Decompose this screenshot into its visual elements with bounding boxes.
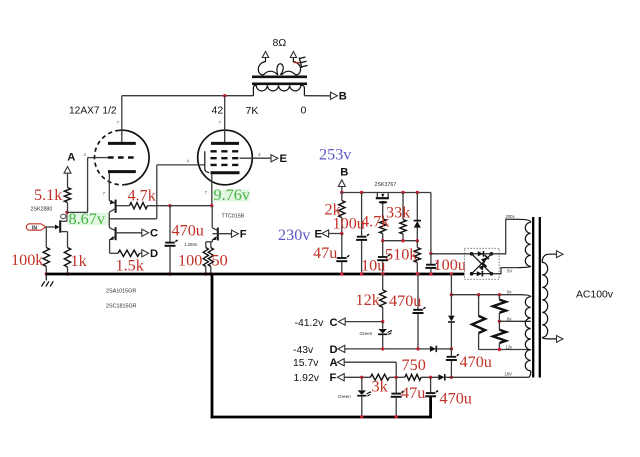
capacitor 470u D-F bbox=[446, 349, 459, 377]
wire A net bbox=[344, 362, 396, 377]
capacitor 470u bypass bbox=[165, 206, 178, 274]
label AC100v bbox=[576, 290, 614, 301]
wire bridge to 200v tap bbox=[492, 219, 519, 254]
capacitor 470u output bbox=[425, 377, 438, 396]
wire U2 screen to E bbox=[240, 157, 272, 159]
svg-text:7K: 7K bbox=[246, 105, 259, 117]
svg-text:470u: 470u bbox=[440, 390, 472, 408]
svg-text:D: D bbox=[150, 248, 158, 260]
label 6v bbox=[507, 317, 512, 322]
junction bus-451 bbox=[450, 272, 453, 275]
transistor Q1 2SA1015 bbox=[109, 200, 115, 228]
tube U1 12AX7 envelope bbox=[94, 130, 149, 185]
probe circle at drain bbox=[61, 214, 66, 218]
label 470u output bbox=[440, 390, 472, 408]
ground bus left vertical bbox=[211, 274, 214, 418]
transistor Q3 TTC015B bbox=[212, 206, 218, 242]
resistor 750 bbox=[405, 374, 439, 380]
wire F net bbox=[344, 376, 370, 379]
svg-text:C: C bbox=[150, 228, 158, 240]
svg-text:0: 0 bbox=[301, 105, 307, 117]
svg-text:470u: 470u bbox=[172, 222, 204, 240]
label 5.1k bbox=[34, 186, 63, 204]
label 470u bias bbox=[389, 292, 421, 310]
ground bus bottom bbox=[211, 416, 431, 419]
led LED2 green bbox=[357, 377, 371, 418]
svg-text:AC100v: AC100v bbox=[576, 290, 614, 301]
tube U2 grid bracket bbox=[205, 151, 209, 172]
wire plate rail bbox=[122, 95, 254, 97]
wire 12v line bbox=[479, 348, 528, 351]
resistor 33k bbox=[400, 191, 406, 241]
svg-text:2SK2880: 2SK2880 bbox=[31, 207, 53, 213]
svg-text:510k: 510k bbox=[385, 246, 418, 264]
wire red net to cathode bbox=[170, 205, 212, 207]
heater left 12AX7 bbox=[472, 295, 485, 350]
svg-text:230v: 230v bbox=[278, 226, 311, 244]
wire 16V line bbox=[451, 376, 528, 378]
node B port right bbox=[331, 91, 347, 103]
junction 1k-bus bbox=[66, 272, 69, 275]
label 16V bbox=[505, 372, 513, 377]
tube U2 grids bbox=[211, 151, 240, 165]
svg-text:12v: 12v bbox=[506, 345, 514, 350]
node F port left bbox=[330, 372, 345, 384]
svg-text:100u: 100u bbox=[434, 256, 466, 274]
svg-text:IN: IN bbox=[32, 226, 37, 232]
svg-text:F: F bbox=[330, 372, 337, 384]
svg-text:2SC1815GR: 2SC1815GR bbox=[106, 304, 137, 310]
output transformer core bbox=[252, 77, 307, 84]
capacitor 470u bias bbox=[413, 272, 426, 349]
label 12k bbox=[356, 291, 381, 309]
diode D line bbox=[430, 346, 452, 352]
capacitor 100u first bbox=[356, 191, 369, 274]
svg-text:33k: 33k bbox=[386, 204, 411, 222]
junction 47u-bus bbox=[340, 272, 343, 275]
resistor 4.7k bbox=[130, 203, 171, 209]
svg-text:5.1k: 5.1k bbox=[34, 186, 63, 204]
junction F-451 bbox=[450, 376, 453, 379]
label 230v bbox=[278, 226, 311, 244]
tube U2 42 envelope bbox=[198, 130, 253, 185]
label 47u supply bbox=[313, 244, 337, 262]
svg-text:8Ω: 8Ω bbox=[273, 37, 287, 49]
svg-text:Green: Green bbox=[338, 394, 351, 399]
svg-text:E: E bbox=[280, 153, 288, 165]
label 0 bbox=[301, 105, 307, 117]
label 1.284v bbox=[184, 242, 198, 247]
label 4.7k supply bbox=[361, 213, 390, 231]
node E port left bbox=[315, 229, 329, 241]
svg-text:C: C bbox=[330, 317, 338, 329]
label 33k bbox=[386, 204, 411, 222]
wire primary to B bbox=[304, 95, 330, 97]
transistor 2SK3767 MOSFET bbox=[376, 193, 389, 219]
ground bus right vertical bbox=[429, 397, 432, 419]
resistor 4.7k supply bbox=[380, 219, 386, 241]
junction 50-bus bbox=[209, 272, 212, 275]
svg-text:12AX7 1/2: 12AX7 1/2 bbox=[69, 106, 117, 117]
svg-text:2SK3767: 2SK3767 bbox=[375, 182, 397, 188]
svg-text:B: B bbox=[339, 91, 347, 103]
wire IN to JFET gate bbox=[46, 225, 60, 230]
label 470u bypass bbox=[172, 222, 204, 240]
primary terminal top bbox=[557, 251, 563, 258]
label 100k bbox=[11, 251, 44, 269]
supply rail bbox=[342, 193, 431, 254]
node A port left bbox=[330, 357, 345, 369]
junction D-451 bbox=[450, 347, 453, 350]
tube U1 plate bbox=[108, 96, 136, 144]
junction 510k-bus bbox=[416, 272, 419, 275]
green voltage label 8.67v bbox=[68, 210, 110, 228]
ground bus top bbox=[46, 273, 465, 276]
capacitor 47u bias bbox=[391, 377, 404, 418]
wire U2 grid input bbox=[157, 164, 205, 166]
transistor JFET 2SK2880 bbox=[60, 213, 67, 248]
svg-text:-43v: -43v bbox=[293, 345, 314, 356]
svg-text:E: E bbox=[315, 229, 323, 241]
resistor 100 bbox=[203, 242, 208, 274]
led LED1 green bbox=[378, 322, 392, 349]
diode zener bbox=[414, 191, 421, 241]
svg-text:16V: 16V bbox=[505, 372, 513, 377]
junction 100u-bus bbox=[360, 272, 363, 275]
power transformer HV winding bbox=[518, 219, 531, 267]
bridge rectifier D1-D4 bbox=[431, 248, 499, 279]
node C port right bbox=[142, 228, 158, 240]
svg-text:-41.2v: -41.2v bbox=[295, 318, 325, 329]
label 750 bbox=[402, 356, 426, 374]
label -43v bbox=[293, 345, 314, 356]
resistor 5.1k bbox=[64, 173, 70, 213]
label 2SK3767 bbox=[375, 182, 397, 188]
label Green 2 bbox=[338, 394, 351, 399]
label 50 bbox=[212, 252, 228, 270]
svg-text:253v: 253v bbox=[319, 146, 352, 164]
svg-text:50: 50 bbox=[212, 252, 228, 270]
label 2k bbox=[325, 201, 342, 219]
label TTC015B bbox=[222, 214, 245, 220]
label 42 bbox=[212, 105, 224, 117]
label 100 bbox=[178, 252, 202, 270]
svg-text:9.76v: 9.76v bbox=[214, 186, 251, 204]
label 15.7v bbox=[293, 358, 319, 369]
resistor 12k bbox=[380, 272, 386, 321]
wire driver out to U2 grid bbox=[109, 165, 157, 219]
svg-text:200v: 200v bbox=[506, 214, 516, 219]
node F port right bbox=[232, 229, 247, 241]
diode F line bbox=[438, 374, 451, 380]
output transformer primary bbox=[253, 85, 304, 95]
label 1.5k bbox=[116, 257, 145, 275]
speaker arrow left bbox=[262, 51, 268, 57]
node B port supply bbox=[338, 167, 348, 187]
heater right 42 upper bbox=[493, 295, 506, 322]
svg-text:100: 100 bbox=[178, 252, 202, 270]
junction 100k-bus bbox=[45, 272, 48, 275]
tube U1 cathode bbox=[108, 172, 136, 201]
resistor 1.5k bbox=[110, 250, 142, 256]
tube U2 pin labels bbox=[187, 120, 262, 195]
svg-text:47u: 47u bbox=[401, 384, 425, 402]
label 1k bbox=[71, 252, 88, 270]
label 8ohm bbox=[273, 37, 287, 49]
capacitor 100u second bbox=[425, 252, 438, 274]
label 253v bbox=[319, 146, 352, 164]
resistor 100k bbox=[43, 227, 49, 274]
node drain junction bbox=[65, 211, 68, 214]
label 100u second bbox=[434, 256, 466, 274]
wire D net bbox=[345, 347, 430, 350]
node D port right bbox=[142, 248, 158, 260]
junction 6v tap bbox=[498, 320, 501, 323]
svg-text:12k: 12k bbox=[356, 291, 381, 309]
junction tube2 plate bbox=[223, 94, 226, 97]
node C port left bbox=[330, 317, 346, 329]
speaker arrow right bbox=[290, 51, 296, 57]
heater right 42 lower bbox=[493, 321, 506, 349]
svg-text:1.5k: 1.5k bbox=[116, 257, 145, 275]
svg-text:15.7v: 15.7v bbox=[293, 358, 319, 369]
resistor 3k bbox=[370, 374, 404, 380]
wire B to rail bbox=[340, 187, 343, 195]
wire Q3 base to F bbox=[212, 233, 231, 235]
primary terminal bottom bbox=[557, 336, 563, 343]
wire bus to 0v line bbox=[450, 274, 453, 296]
svg-text:4.7k: 4.7k bbox=[128, 187, 157, 205]
chassis ground E bbox=[299, 56, 308, 68]
label 100u first bbox=[333, 215, 365, 233]
capacitor 10u bbox=[377, 241, 390, 274]
tube U2 cathode bbox=[211, 173, 240, 206]
svg-text:100k: 100k bbox=[11, 251, 44, 269]
label 4.7k bbox=[128, 187, 157, 205]
junction cathode net bbox=[210, 204, 213, 207]
svg-text:A: A bbox=[67, 152, 75, 164]
wire drain node to tube grid bbox=[67, 158, 95, 213]
svg-text:10u: 10u bbox=[361, 257, 385, 275]
resistor 50 bbox=[208, 242, 213, 274]
capacitor 47u supply bbox=[336, 234, 349, 274]
junction 100u2-bus bbox=[429, 272, 432, 275]
wire Q2 base to C bbox=[116, 232, 142, 234]
svg-text:2SA1015GR: 2SA1015GR bbox=[106, 289, 136, 295]
junction 10u-bus bbox=[381, 272, 384, 275]
wire E to node bbox=[329, 232, 344, 235]
label 12v bbox=[506, 345, 514, 350]
svg-text:F: F bbox=[240, 229, 247, 241]
tube U1 grid bbox=[95, 156, 136, 159]
svg-text:TTC015B: TTC015B bbox=[222, 214, 245, 220]
label 0v heater bbox=[507, 290, 512, 295]
label 2SK2880 bbox=[31, 207, 53, 213]
node E port right bbox=[271, 153, 288, 165]
input port IN bbox=[26, 224, 45, 232]
green voltage label 9.76v bbox=[213, 186, 251, 204]
wire 0v line bbox=[451, 293, 518, 296]
junction 4.7k right bbox=[168, 204, 171, 207]
label 200v bbox=[506, 214, 516, 219]
power transformer core bbox=[533, 217, 540, 378]
node D port left bbox=[330, 344, 345, 356]
wire 6v tap bbox=[499, 320, 518, 322]
wire Q1 base to 4.7k bbox=[116, 205, 130, 207]
junction 100-bus bbox=[204, 272, 207, 275]
svg-text:0V: 0V bbox=[507, 269, 512, 274]
output transformer secondary bbox=[258, 58, 300, 75]
label 510k bbox=[385, 246, 418, 264]
svg-text:42: 42 bbox=[212, 105, 224, 117]
resistor 510k bbox=[414, 241, 420, 274]
svg-text:47u: 47u bbox=[313, 244, 337, 262]
label 47u bias bbox=[401, 384, 425, 402]
label 3k bbox=[372, 378, 389, 396]
label 1.92v bbox=[294, 373, 320, 384]
svg-text:D: D bbox=[330, 344, 338, 356]
svg-text:750: 750 bbox=[402, 356, 426, 374]
svg-text:1.92v: 1.92v bbox=[294, 373, 320, 384]
label -41.2v bbox=[295, 318, 325, 329]
junction 470u-bus bbox=[168, 272, 171, 275]
node A port bbox=[64, 152, 75, 174]
label 470u D-F bbox=[460, 353, 492, 371]
wire emitter to resistors bbox=[206, 241, 213, 243]
label 2SA1015GR bbox=[106, 289, 136, 295]
svg-text:B: B bbox=[340, 167, 348, 179]
label Green 1 bbox=[360, 331, 373, 336]
svg-text:A: A bbox=[330, 357, 338, 369]
power transformer primary bbox=[542, 254, 556, 339]
label 12AX7 1/2 bbox=[69, 106, 117, 117]
svg-text:470u: 470u bbox=[460, 353, 492, 371]
power transformer heater winding bbox=[518, 295, 531, 378]
label 2SC1815GR bbox=[106, 304, 137, 310]
resistor 2k bbox=[339, 193, 345, 234]
wire C net bbox=[345, 320, 384, 323]
tube U2 plate bbox=[211, 96, 239, 144]
label 10u bbox=[361, 257, 385, 275]
wire bridge to 0V tap bbox=[492, 268, 519, 274]
svg-text:1k: 1k bbox=[71, 252, 88, 270]
transistor Q2 2SC1815 bbox=[109, 227, 115, 253]
diode negative rect bbox=[448, 295, 455, 349]
svg-text:470u: 470u bbox=[389, 292, 421, 310]
wire secondary to chassis ground bbox=[293, 62, 300, 64]
svg-text:1.284v: 1.284v bbox=[184, 242, 198, 247]
label 7K bbox=[246, 105, 259, 117]
ground bbox=[42, 275, 54, 287]
svg-text:Green: Green bbox=[360, 331, 373, 336]
wire regulator node bbox=[381, 239, 419, 242]
svg-text:3k: 3k bbox=[372, 378, 389, 396]
tube U1 pin labels bbox=[84, 120, 120, 196]
label 0V bbox=[507, 269, 512, 274]
resistor 1k bbox=[64, 248, 70, 274]
